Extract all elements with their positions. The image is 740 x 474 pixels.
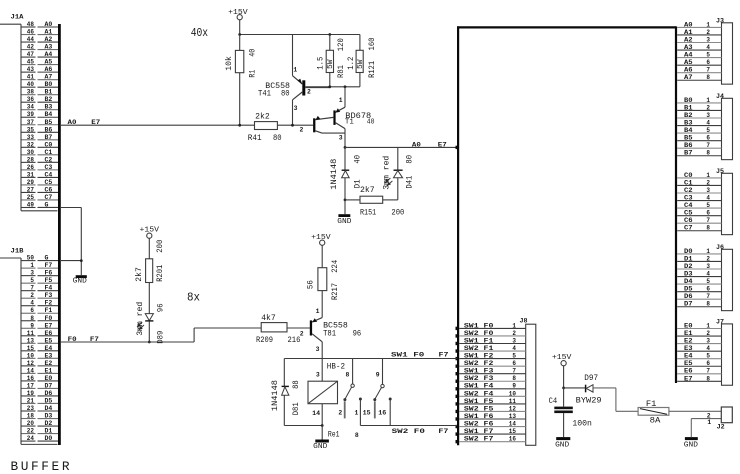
svg-text:SW1 F2: SW1 F2 [464,353,494,360]
svg-text:F7: F7 [90,336,99,343]
diode D81 1N4148 [271,359,301,426]
svg-text:6: 6 [706,59,710,66]
svg-text:A2: A2 [45,36,53,43]
resistor R201 2k7 [134,240,165,314]
svg-text:C5: C5 [684,210,693,217]
svg-text:SW2 F1: SW2 F1 [464,345,494,352]
svg-text:7: 7 [706,142,710,149]
svg-text:5: 5 [706,278,710,285]
svg-text:SW1 F7: SW1 F7 [464,428,494,435]
junction [238,124,241,127]
svg-text:B4: B4 [45,111,53,118]
connector J1A [0,14,58,211]
svg-text:B0: B0 [45,81,53,88]
svg-text:C0: C0 [684,172,693,179]
svg-text:D1: D1 [45,428,53,435]
svg-text:E0: E0 [45,375,53,382]
svg-text:E7: E7 [684,375,693,382]
svg-text:D5: D5 [684,286,693,293]
wire net F0-F7 [61,328,261,343]
svg-text:SW2 F0: SW2 F0 [392,428,426,435]
transistor T1 BD678 darlington [300,87,375,148]
svg-text:A6: A6 [684,67,693,74]
svg-text:2: 2 [30,292,34,299]
svg-text:4: 4 [706,270,710,277]
svg-text:1: 1 [706,172,710,179]
svg-text:G: G [45,255,49,262]
svg-text:1: 1 [707,419,711,426]
diode D97 BYW29 [564,374,616,406]
svg-text:A7: A7 [684,74,693,81]
svg-text:96: 96 [353,330,362,339]
svg-text:F0: F0 [68,336,77,343]
svg-text:A6: A6 [45,66,53,73]
connector J5 [677,168,732,235]
svg-text:2k7: 2k7 [134,267,144,282]
resistor R1 10k [224,35,257,126]
svg-text:3: 3 [316,346,320,353]
svg-text:6: 6 [706,210,710,217]
svg-text:5: 5 [30,277,34,284]
svg-text:11: 11 [27,330,34,337]
svg-text:E3: E3 [45,352,53,359]
svg-text:D7: D7 [684,301,693,308]
svg-text:3mm red: 3mm red [135,302,145,336]
svg-text:SW2 F6: SW2 F6 [464,420,494,427]
svg-text:T1: T1 [345,119,354,127]
svg-text:28: 28 [27,156,34,163]
svg-text:8: 8 [706,150,710,157]
svg-text:2: 2 [512,330,516,337]
svg-text:B7: B7 [45,134,53,141]
svg-text:5W: 5W [327,59,335,69]
resistor R81 1.5 5W [317,35,347,87]
bus junction dot row 1 [456,327,459,330]
svg-text:1N4148: 1N4148 [330,159,339,190]
junction [238,33,241,36]
svg-text:D81: D81 [292,402,301,415]
resistor R121 1.2 5W [347,35,377,87]
svg-text:E6: E6 [45,330,53,337]
bus junction dot row 13 [456,417,459,420]
svg-text:F7: F7 [438,428,448,435]
svg-text:29: 29 [27,179,34,186]
svg-text:2: 2 [706,179,710,186]
resistor R151 2k7 [345,185,404,218]
svg-text:6: 6 [30,307,34,314]
svg-text:R217: R217 [331,283,340,300]
svg-text:D7: D7 [45,382,53,389]
svg-text:F7: F7 [439,352,449,359]
svg-text:3: 3 [316,371,320,378]
bus left vertical (to J8) [457,26,459,445]
svg-text:8: 8 [30,315,34,322]
svg-text:39: 39 [27,111,34,118]
svg-text:C3: C3 [684,194,693,201]
bus junction dot row 15 [456,432,459,435]
bus junction dot row 6 [456,364,459,367]
svg-text:15: 15 [363,409,371,416]
svg-text:1: 1 [339,97,343,104]
bus junction dot row 7 [456,372,459,375]
svg-text:14: 14 [312,410,320,417]
svg-text:32: 32 [27,141,34,148]
svg-text:T81: T81 [323,330,336,339]
svg-text:F1: F1 [646,400,657,409]
svg-text:BYW29: BYW29 [576,397,602,406]
svg-text:21: 21 [27,397,34,404]
svg-text:SW2 F4: SW2 F4 [464,390,494,397]
svg-text:25: 25 [27,194,34,201]
wire net A0-E7 right [345,141,457,148]
resistor R217 56 [307,260,340,318]
svg-text:B2: B2 [45,96,53,103]
svg-text:2: 2 [706,29,710,36]
junction [80,259,83,262]
svg-text:13: 13 [27,337,34,344]
svg-text:C4: C4 [549,397,558,406]
svg-text:1: 1 [706,248,710,255]
svg-text:C0: C0 [45,141,53,148]
svg-text:16: 16 [509,436,516,443]
svg-text:14: 14 [509,420,516,427]
svg-text:R201: R201 [156,265,165,282]
svg-text:4: 4 [706,345,710,352]
svg-text:E4: E4 [45,345,53,352]
svg-text:C5: C5 [45,179,53,186]
junction [562,387,565,390]
svg-text:46: 46 [27,29,34,36]
svg-text:B1: B1 [45,89,53,96]
svg-text:GND: GND [73,277,88,285]
svg-text:F6: F6 [45,270,53,277]
svg-text:40: 40 [354,155,363,164]
svg-text:56: 56 [307,280,316,289]
svg-text:C2: C2 [45,156,53,163]
svg-text:J7: J7 [716,319,724,326]
bus junction dot row 14 [456,425,459,428]
svg-text:5: 5 [706,52,710,59]
bus junction dot row 16 [456,440,459,443]
bus junction dot row 12 [456,410,459,413]
wire D97 to fuse [616,388,638,411]
svg-text:2k7: 2k7 [360,185,375,195]
svg-text:SW1 F4: SW1 F4 [464,383,494,390]
switch SW1 (relay contact) [338,359,362,426]
svg-text:19: 19 [27,390,34,397]
LED D41 3mm red [381,147,414,200]
svg-text:8: 8 [355,432,359,439]
svg-text:D4: D4 [684,278,693,285]
svg-text:40: 40 [27,81,34,88]
svg-text:D5: D5 [45,397,53,404]
svg-text:R121: R121 [368,61,377,78]
junction [328,33,331,36]
svg-text:GND: GND [555,442,570,450]
svg-text:F7: F7 [45,262,53,269]
svg-text:B3: B3 [684,119,693,126]
svg-text:3: 3 [294,105,298,112]
bus junction dot row 4 [456,349,459,352]
junction [344,85,347,88]
svg-text:E3: E3 [684,345,693,352]
svg-text:SW2 F3: SW2 F3 [464,375,494,382]
svg-text:B2: B2 [684,112,693,119]
svg-text:B3: B3 [45,104,53,111]
svg-text:A1: A1 [684,29,693,36]
svg-text:1N4148: 1N4148 [271,380,280,411]
svg-text:C4: C4 [45,171,53,178]
svg-text:44: 44 [27,36,34,43]
svg-text:35: 35 [27,126,34,133]
wire net SW1 F0-F7 [284,352,457,359]
svg-text:1: 1 [293,67,297,74]
svg-text:80: 80 [281,89,290,98]
bus junction dot row 5 [456,357,459,360]
svg-text:SW2 F5: SW2 F5 [464,405,494,412]
svg-text:R209: R209 [256,336,273,345]
svg-text:4: 4 [512,345,516,352]
svg-text:E4: E4 [684,353,693,360]
svg-text:R1: R1 [248,70,257,78]
svg-text:1: 1 [706,97,710,104]
svg-text:7: 7 [706,368,710,375]
svg-text:GND: GND [684,442,699,450]
svg-text:C1: C1 [45,149,53,156]
transistor T81 BC558 [287,308,361,381]
svg-text:C2: C2 [684,187,693,194]
ground GND (relay) [313,426,329,452]
transistor T41 BC558 [258,35,330,126]
svg-text:12: 12 [27,360,34,367]
svg-text:F5: F5 [45,277,53,284]
connector J6 [677,244,732,311]
connector J8 [456,317,536,445]
svg-text:B4: B4 [684,127,693,134]
svg-text:F4: F4 [45,285,53,292]
svg-text:40: 40 [248,49,257,57]
svg-text:E1: E1 [684,330,693,337]
svg-text:1: 1 [512,322,516,329]
svg-text:5: 5 [706,202,710,209]
svg-text:E6: E6 [684,368,693,375]
svg-text:C7: C7 [684,225,693,232]
svg-text:D2: D2 [45,420,53,427]
svg-text:34: 34 [27,104,34,111]
svg-text:9: 9 [376,371,380,378]
svg-text:8: 8 [706,225,710,232]
svg-text:40: 40 [367,119,375,127]
svg-text:96: 96 [156,303,165,312]
svg-text:80: 80 [405,155,414,164]
junction [344,146,347,149]
svg-text:E7: E7 [45,322,53,329]
svg-text:6: 6 [512,360,516,367]
wire net SW2 F0-F7 [360,426,457,436]
svg-text:33: 33 [27,134,34,141]
svg-text:50: 50 [27,255,34,262]
svg-text:40x: 40x [191,26,208,40]
svg-text:A1: A1 [45,29,53,36]
wire R41 to T1 base [277,124,313,126]
svg-text:27: 27 [27,186,34,193]
svg-text:E2: E2 [45,360,53,367]
bus junction dot row 10 [456,395,459,398]
svg-text:8: 8 [706,74,710,81]
svg-text:7: 7 [706,217,710,224]
svg-text:2: 2 [706,104,710,111]
svg-text:A3: A3 [684,44,693,51]
svg-text:16: 16 [27,375,34,382]
svg-text:1: 1 [706,322,710,329]
svg-text:31: 31 [27,171,34,178]
svg-text:C7: C7 [45,194,53,201]
wire relay bottom [284,425,322,427]
connector J2 [707,407,733,430]
svg-text:6: 6 [706,135,710,142]
svg-text:J2: J2 [717,423,725,430]
svg-text:3mm red: 3mm red [381,156,391,190]
svg-text:B5: B5 [45,119,53,126]
svg-text:24: 24 [27,435,34,442]
svg-text:D97: D97 [584,374,598,383]
svg-text:2: 2 [300,127,304,134]
svg-text:36: 36 [27,96,34,103]
svg-text:2: 2 [706,255,710,262]
svg-text:E5: E5 [684,360,693,367]
svg-text:B5: B5 [684,135,693,142]
diode D1 1N4148 [330,147,362,200]
svg-text:E0: E0 [684,322,693,329]
svg-text:D4: D4 [45,405,53,412]
junction [328,85,331,88]
svg-text:SW1 F3: SW1 F3 [464,368,494,375]
svg-text:224: 224 [331,260,340,273]
svg-text:D41: D41 [405,176,414,189]
svg-text:9: 9 [512,383,516,390]
svg-text:F1: F1 [45,307,53,314]
svg-text:B6: B6 [684,142,693,149]
svg-text:7: 7 [512,368,516,375]
svg-text:T41: T41 [258,89,271,98]
svg-text:D6: D6 [684,293,693,300]
svg-text:G: G [45,201,49,208]
junction [148,341,151,344]
svg-text:9: 9 [30,322,34,329]
svg-text:SW1 F5: SW1 F5 [464,398,494,405]
svg-text:E7: E7 [438,141,447,148]
svg-text:A0: A0 [684,21,693,28]
svg-text:1: 1 [30,262,34,269]
svg-text:B1: B1 [684,104,693,111]
bus J1 vertical [58,24,61,445]
svg-text:10k: 10k [224,56,234,71]
svg-text:C6: C6 [45,186,53,193]
switch SW2 (relay contact) [363,359,392,426]
svg-text:SW1 F1: SW1 F1 [464,337,494,344]
svg-text:13: 13 [509,413,516,420]
svg-text:6: 6 [706,286,710,293]
svg-text:SW2 F0: SW2 F0 [464,330,494,337]
svg-text:R151: R151 [360,209,376,218]
connector J4 [677,93,732,160]
svg-text:SW2 F7: SW2 F7 [464,436,494,443]
svg-text:2k2: 2k2 [255,111,270,121]
pin 1 contact [359,398,362,401]
svg-text:7: 7 [706,67,710,74]
bus top horizontal [457,26,676,28]
svg-text:8x: 8x [187,290,200,304]
connector J7 [677,319,732,386]
svg-text:38: 38 [27,89,34,96]
power +15V (middle left) [140,227,160,259]
junction [291,124,294,127]
svg-text:200: 200 [391,209,404,218]
svg-text:8: 8 [706,375,710,382]
svg-text:37: 37 [27,119,34,126]
svg-text:1.2: 1.2 [347,57,356,70]
bus junction dot row 2 [456,334,459,337]
svg-text:88: 88 [292,380,301,389]
svg-text:2: 2 [706,330,710,337]
svg-text:2: 2 [338,410,342,417]
svg-text:3: 3 [30,270,34,277]
svg-text:48: 48 [27,21,34,28]
svg-text:A7: A7 [45,74,53,81]
svg-text:E7: E7 [91,119,100,126]
svg-text:B0: B0 [684,97,693,104]
svg-text:14: 14 [27,367,34,374]
fuse F1 8A [638,400,721,425]
svg-text:1.5: 1.5 [317,57,326,70]
wire net A0-E7 left [61,119,255,126]
bus junction dot row 3 [456,342,459,345]
svg-text:80: 80 [273,134,282,143]
svg-text:10: 10 [509,390,516,397]
svg-text:GND: GND [337,218,352,226]
svg-text:15: 15 [27,345,34,352]
wire +15V rail [240,34,360,36]
svg-text:R41: R41 [248,134,262,143]
svg-text:A0: A0 [68,119,77,126]
svg-text:4k7: 4k7 [261,313,276,323]
bus junction dot row 9 [456,387,459,390]
svg-text:4: 4 [706,119,710,126]
svg-text:2: 2 [307,88,311,95]
svg-text:4: 4 [30,300,34,307]
svg-text:2: 2 [300,331,304,338]
svg-text:SW1 F0: SW1 F0 [464,322,494,329]
svg-text:A5: A5 [684,59,693,66]
svg-text:11: 11 [509,398,516,405]
svg-text:J8: J8 [520,317,528,324]
bus right vertical (to J3-J7) [675,26,677,383]
svg-text:42: 42 [27,44,34,51]
svg-text:5: 5 [512,353,516,360]
LED D89 3mm red [135,302,166,344]
svg-text:216: 216 [288,336,301,345]
svg-text:47: 47 [27,51,34,58]
svg-text:E2: E2 [684,338,693,345]
svg-text:3: 3 [706,112,710,119]
connector J1B [0,248,58,445]
svg-text:D1: D1 [684,255,693,262]
svg-text:F2: F2 [45,300,53,307]
svg-text:30: 30 [27,149,34,156]
svg-text:10: 10 [27,352,34,359]
svg-text:8: 8 [512,375,516,382]
svg-text:8: 8 [706,301,710,308]
